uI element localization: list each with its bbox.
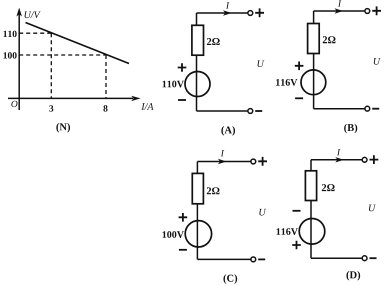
plus sign B top terminal <box>372 6 381 15</box>
caption (A) <box>221 126 235 136</box>
caption (N) <box>56 123 70 133</box>
tick label 110 <box>4 31 17 37</box>
terminal B bottom <box>365 106 370 111</box>
minus polarity (D) <box>293 210 301 212</box>
current arrow A <box>223 10 232 15</box>
tick label 8 <box>103 105 107 111</box>
label 110V (A) <box>163 81 184 88</box>
label 116V (D) <box>277 228 298 235</box>
tick label 3 <box>49 105 53 111</box>
minus sign B bottom terminal <box>372 108 379 110</box>
caption (C) <box>223 274 237 284</box>
label I (D) <box>337 149 341 155</box>
current arrow D <box>335 157 344 162</box>
terminal C top <box>251 159 256 164</box>
label 2ohm (A) <box>207 38 220 45</box>
y-axis arrowhead <box>16 8 22 17</box>
axis label U/V <box>25 11 41 18</box>
axis label I/A <box>141 103 153 110</box>
caption (B) <box>344 124 357 134</box>
wire A left vertical <box>196 13 198 111</box>
dashed line I=3 <box>50 33 52 98</box>
terminal B top <box>365 9 370 14</box>
dashed line I=8 <box>105 55 107 98</box>
plus sign A top terminal <box>255 8 264 17</box>
label U (A) <box>258 60 265 67</box>
label 2ohm (C) <box>207 187 220 194</box>
resistor 2ohm (D) <box>305 171 316 201</box>
source circle (C) <box>185 221 211 247</box>
wire D top horizontal <box>311 159 362 161</box>
plus polarity (A) <box>178 63 187 72</box>
resistor 2ohm (A) <box>192 25 204 55</box>
plus polarity (B) <box>295 62 304 71</box>
label U (C) <box>259 209 266 216</box>
wire A bottom horizontal <box>197 110 248 112</box>
label 100V (C) <box>163 231 184 238</box>
terminal C bottom <box>251 257 256 262</box>
wire D bottom horizontal <box>311 257 362 259</box>
plus sign C top terminal <box>258 157 267 166</box>
minus polarity (C) <box>179 249 187 251</box>
source circle (A) <box>185 72 210 97</box>
resistor 2ohm (C) <box>192 173 203 203</box>
minus sign C bottom terminal <box>258 258 265 260</box>
wire D left vertical <box>310 160 312 258</box>
plus polarity (C) <box>179 213 188 222</box>
origin O <box>11 101 17 107</box>
current arrow B <box>335 8 344 13</box>
wire A top horizontal <box>197 12 248 14</box>
plus polarity (D) <box>292 241 301 250</box>
minus sign D bottom terminal <box>370 257 377 259</box>
terminal D bottom <box>362 256 367 261</box>
resistor 2ohm (B) <box>308 24 320 54</box>
wire C top horizontal <box>197 161 251 163</box>
dashed line U=100 <box>19 54 106 56</box>
source circle (B) <box>301 70 326 95</box>
wire C bottom horizontal <box>197 258 251 260</box>
load line <box>26 23 130 64</box>
minus polarity (A) <box>178 99 186 101</box>
terminal D top <box>362 157 367 162</box>
label I (A) <box>226 2 230 8</box>
label U (B) <box>374 58 381 65</box>
terminal A bottom <box>248 109 253 114</box>
wire B left vertical <box>313 11 315 109</box>
x-axis arrowhead <box>131 96 140 101</box>
label 116V (B) <box>276 79 297 86</box>
wire B bottom horizontal <box>314 108 365 110</box>
label U (D) <box>369 205 376 212</box>
y-axis <box>18 12 20 110</box>
wire B top horizontal <box>314 10 365 12</box>
source circle (D) <box>299 219 325 245</box>
dashed line U=110 <box>19 32 51 34</box>
caption (D) <box>346 271 360 281</box>
plus sign D top terminal <box>370 155 379 164</box>
current arrow C <box>218 159 227 164</box>
tick label 100 <box>4 52 17 58</box>
label I (C) <box>221 150 225 156</box>
wire C left vertical <box>196 162 198 260</box>
label I (B) <box>338 0 342 6</box>
terminal A top <box>248 11 253 16</box>
minus polarity (B) <box>295 97 303 99</box>
label 2ohm (D) <box>322 184 335 191</box>
label 2ohm (B) <box>323 36 336 43</box>
minus sign A bottom terminal <box>255 110 262 112</box>
x-axis <box>8 97 133 99</box>
